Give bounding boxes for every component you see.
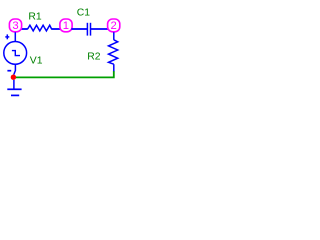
ground stub xyxy=(13,80,15,89)
plus sign xyxy=(5,36,9,38)
ground wire (green) xyxy=(16,71,114,78)
svg-text:R1: R1 xyxy=(28,11,42,22)
wire R1 to node1 xyxy=(51,28,60,30)
svg-text:R2: R2 xyxy=(87,51,101,62)
node 2 xyxy=(108,19,120,32)
wire C1 to node2 xyxy=(91,28,108,30)
source V1 xyxy=(4,42,27,65)
capacitor C1 xyxy=(86,23,88,36)
node 1 xyxy=(60,19,72,32)
V1 bottom lead xyxy=(14,64,16,74)
wire node1 to C1 xyxy=(71,28,87,30)
resistor R2 stub xyxy=(113,32,115,40)
resistor R2 xyxy=(109,40,118,64)
node 3 xyxy=(9,19,21,32)
wire node3 to R1 xyxy=(21,28,28,30)
svg-text:V1: V1 xyxy=(30,56,43,67)
wire node3 to V1 xyxy=(14,32,16,42)
svg-text:3: 3 xyxy=(12,20,18,32)
V1 pulse symbol xyxy=(12,51,20,56)
R2 bottom lead xyxy=(113,64,115,71)
ground bar 2 xyxy=(11,94,19,96)
resistor R1 xyxy=(28,25,52,31)
svg-text:1: 1 xyxy=(63,20,69,32)
junction dot xyxy=(11,75,16,80)
svg-text:2: 2 xyxy=(111,20,117,32)
minus sign xyxy=(7,70,11,72)
svg-text:C1: C1 xyxy=(77,8,91,19)
ground bar 1 xyxy=(7,88,21,90)
